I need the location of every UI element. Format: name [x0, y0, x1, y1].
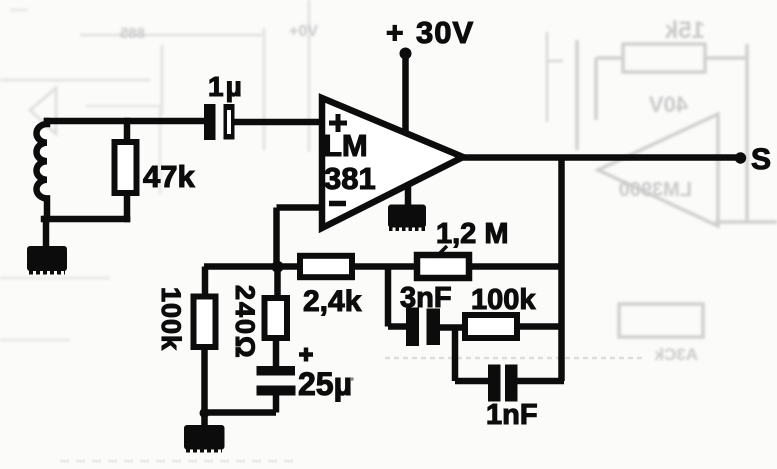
svg-text:240Ω: 240Ω	[230, 285, 260, 360]
wire: bottom left	[44, 216, 127, 223]
wire: ground stem bottom	[201, 413, 208, 427]
ground G1	[27, 246, 67, 272]
ghost dashed text-line streak	[385, 357, 645, 360]
resistor 100k left	[194, 297, 216, 348]
wire: minus input to junction	[277, 208, 323, 267]
ghost texts (mirrored)	[120, 17, 705, 364]
wire: supply to op-amp	[402, 53, 409, 134]
svg-text:1µ: 1µ	[208, 71, 244, 102]
op-amp - input mark	[329, 201, 346, 207]
node: junction A dot	[272, 261, 284, 273]
wire: 1,2M to feedback line	[469, 263, 562, 270]
main circuit	[36, 121, 204, 248]
wire: input top	[47, 118, 204, 125]
svg-text:15k: 15k	[664, 17, 705, 44]
svg-text:30V: 30V	[416, 15, 474, 50]
svg-text:LM: LM	[323, 128, 368, 163]
svg-text:885: 885	[120, 25, 145, 42]
svg-text:3nF: 3nF	[400, 282, 452, 314]
wire: 1nF to feedback line	[518, 378, 565, 385]
resistor 47k	[115, 142, 137, 193]
inductor (input coil)	[36, 121, 47, 219]
wire: 100k left branch	[201, 267, 208, 414]
capacitor 25u	[257, 366, 296, 396]
svg-text:LM3900: LM3900	[619, 179, 692, 201]
ghost resistor box bottom right	[619, 304, 703, 337]
ghost wire mid	[547, 32, 563, 122]
wire: output	[462, 154, 737, 161]
capacitor 1u	[204, 104, 235, 140]
resistor 1,2M	[417, 255, 469, 278]
resistor 2,4k	[300, 256, 352, 277]
node S dot	[735, 152, 746, 163]
wire: bottom middle	[205, 409, 277, 416]
wire: ground stem left	[43, 219, 50, 248]
ghost op-amp triangle	[598, 114, 718, 226]
svg-text:47k: 47k	[143, 159, 195, 194]
ghost wire	[577, 40, 777, 222]
capacitor 1nF	[488, 365, 518, 402]
wire: 1nF drop	[455, 328, 488, 382]
capacitor 3nF	[406, 308, 440, 347]
ghost resistor box top right	[623, 44, 705, 72]
speck	[350, 377, 354, 381]
svg-text:1,2 M: 1,2 M	[436, 218, 509, 250]
wire: 2,4k to 1,2M	[352, 263, 417, 270]
wire: cap to op-amp	[235, 119, 323, 126]
label + of 25u	[299, 348, 313, 362]
ghost grid lines left	[0, 0, 309, 152]
resistor 240	[265, 298, 288, 338]
ground G2	[388, 205, 426, 230]
svg-text:1nF: 1nF	[486, 399, 538, 431]
wire: 100k to feedback line	[517, 323, 562, 330]
op-amp + input mark	[329, 114, 347, 132]
svg-text:100k: 100k	[156, 287, 186, 351]
svg-text:2,4k: 2,4k	[303, 285, 362, 318]
svg-text:V0+: V0+	[289, 23, 318, 40]
wire: 3nF drop	[388, 267, 406, 327]
wire: node row left	[204, 263, 300, 270]
wire: 25u bottom stem	[273, 396, 280, 413]
svg-text:+: +	[386, 17, 404, 50]
ghost bleed-through layer	[0, 0, 777, 340]
svg-text:381: 381	[324, 161, 376, 196]
node: supply dot	[400, 48, 412, 60]
wire: 240 branch stem	[276, 267, 278, 367]
svg-text:S: S	[751, 143, 771, 176]
svg-text:A3Ck: A3Ck	[654, 345, 698, 364]
leader mark	[436, 246, 447, 257]
wire: feedback vertical	[558, 158, 565, 382]
svg-text:25µ: 25µ	[298, 366, 352, 402]
ground G3	[184, 425, 225, 450]
svg-text:100k: 100k	[471, 284, 536, 316]
resistor 100k right	[465, 315, 517, 338]
node dot bottom	[200, 408, 210, 418]
wire: 47k stems	[124, 121, 131, 219]
op-amp LM381	[322, 98, 463, 228]
svg-text:40V: 40V	[649, 92, 688, 117]
wire: 3nF to 100k	[440, 324, 465, 331]
wire: op-amp ground stem	[405, 183, 412, 206]
